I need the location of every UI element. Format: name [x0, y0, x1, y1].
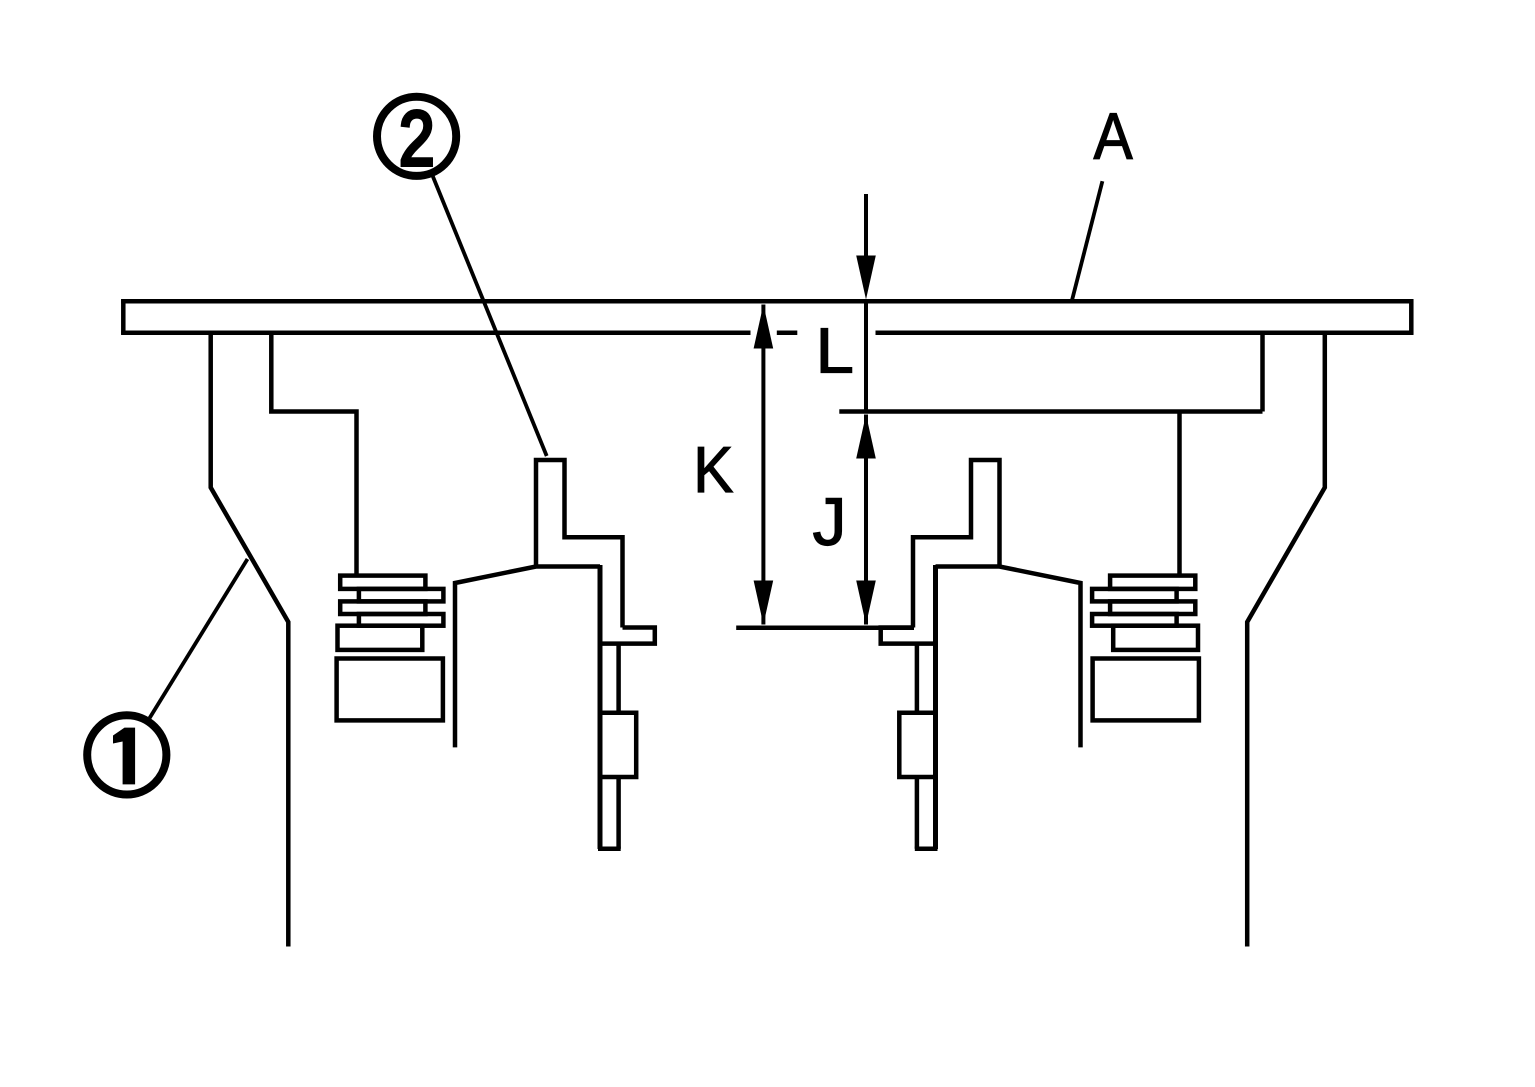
plate A left end cap [121, 299, 126, 335]
right spring coil bar 4 [1092, 614, 1177, 626]
right inner hanger vertical [1177, 412, 1182, 578]
arrowhead J down [856, 581, 876, 625]
plate A top edge [121, 299, 1413, 304]
arrowhead K up [754, 305, 774, 349]
label L [816, 316, 854, 387]
left guide body outline [455, 567, 600, 748]
left valve stem lower right edge [616, 777, 621, 849]
left spring coil bar 1 [340, 576, 425, 589]
right bar bottom edge [839, 409, 1262, 414]
left valve stem bottom cap [598, 847, 621, 852]
right spring coil bar 2 [1092, 589, 1177, 602]
datum line at valve tip [736, 625, 914, 630]
right valve stem block [899, 713, 935, 777]
plate A bottom edge right segment [876, 330, 1414, 335]
leader line for circle 1 [150, 559, 248, 718]
arrowhead down at plate top [856, 256, 876, 300]
right valve stem upper left edge [915, 644, 920, 713]
svg-text:K: K [693, 434, 733, 507]
right spring seat collar [1113, 626, 1198, 650]
left spring coil bar 2 [359, 589, 444, 602]
left tappet step [601, 628, 655, 644]
right spring coil bar 3 [1110, 601, 1195, 614]
right valve stem bottom cap [915, 847, 938, 852]
label K [693, 434, 733, 507]
label J [812, 484, 846, 560]
right outer wall [1247, 331, 1325, 947]
right valve stem lower left edge [915, 777, 920, 849]
right guide body left edge [933, 565, 938, 849]
right tappet outline [913, 460, 1000, 628]
dimension line K [761, 305, 765, 625]
arrowhead K down [754, 581, 774, 625]
left tappet (part 2) outline [536, 460, 623, 628]
left spring retainer block [337, 659, 443, 721]
leader line for circle 2 [433, 177, 547, 457]
digit 2 in callout [399, 95, 435, 181]
left guide body right edge [598, 565, 603, 849]
leader line for A [1072, 181, 1102, 299]
svg-text:L: L [816, 316, 854, 387]
left valve stem upper right edge [616, 644, 621, 713]
svg-text:A: A [1094, 100, 1133, 174]
left spring coil bar 3 [340, 601, 425, 614]
digit 1 in callout [113, 728, 135, 785]
left valve stem block [600, 713, 636, 777]
arrowhead J up [856, 415, 876, 459]
left inner hanger L-shape [271, 331, 356, 578]
plate A bottom edge left segment [121, 330, 750, 335]
left outer wall (part 1) [211, 331, 289, 947]
dimension line J [864, 415, 868, 625]
right spring retainer block [1093, 659, 1199, 721]
callout circle 1 [87, 715, 166, 794]
dimension line L through plate [864, 300, 868, 412]
dimension line above plate [864, 194, 868, 258]
right bar right edge [1260, 331, 1265, 412]
callout circle 2 [377, 97, 456, 176]
right guide body outline [936, 567, 1081, 748]
label A [1094, 100, 1133, 174]
plate A right end cap [1409, 299, 1414, 335]
left spring coil bar 4 [359, 614, 444, 626]
svg-text:J: J [812, 484, 846, 560]
right tappet step [881, 628, 935, 644]
left spring seat collar [338, 626, 423, 650]
right spring coil bar 1 [1110, 576, 1195, 589]
svg-text:2: 2 [399, 95, 435, 181]
